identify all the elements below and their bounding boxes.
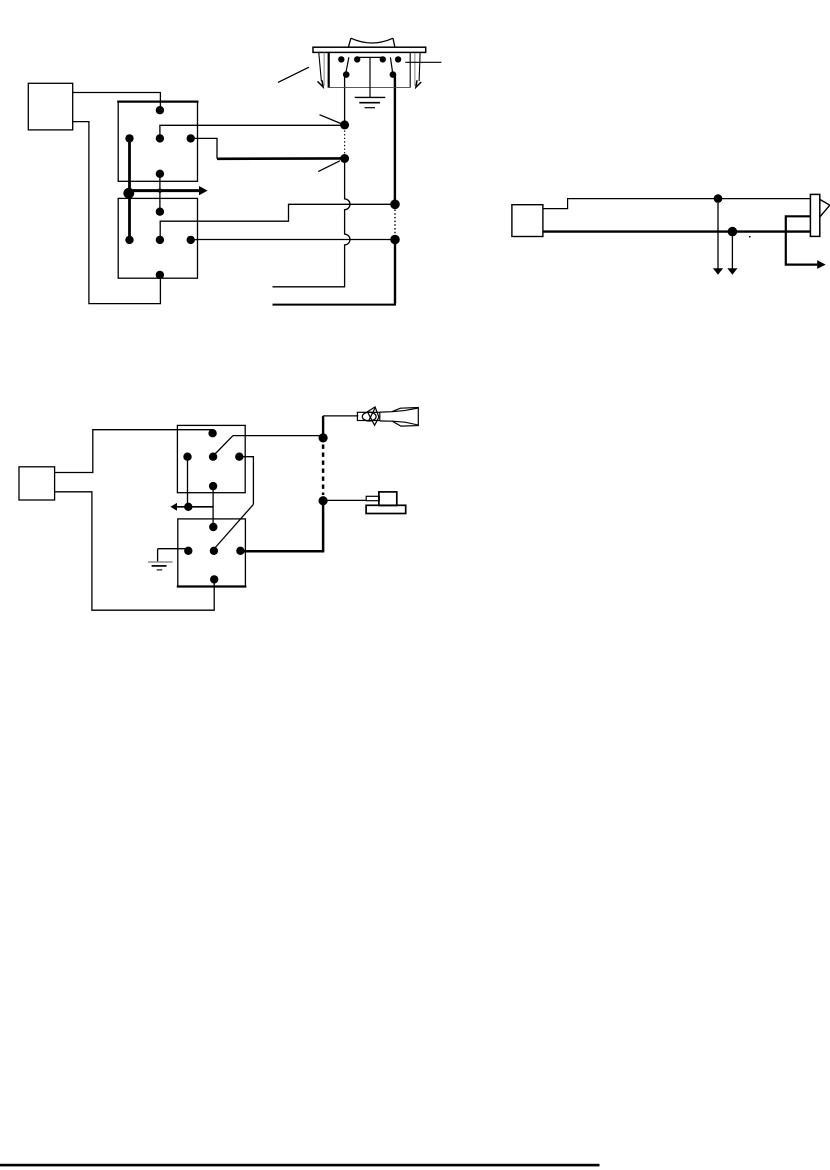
- wire S3 left pin down to arrow node: [187, 457, 189, 507]
- S1 pin center: [156, 134, 164, 142]
- wire rocker left pin down to node A: [344, 75, 346, 126]
- bold wire node H down to S4 right pin: [322, 501, 325, 552]
- dome lamp filament slash: [369, 408, 375, 421]
- S3 pin top: [208, 429, 216, 437]
- wire S3 lever to node G: [233, 435, 320, 437]
- cargo lamp L2 base: [366, 505, 406, 513]
- S4 pin left: [184, 547, 192, 555]
- wire S2 right pin to node D: [191, 239, 391, 241]
- wire to dome lamp: [323, 415, 358, 417]
- dome lamp rotated square: [367, 407, 379, 425]
- S2 pin left: [125, 236, 133, 244]
- wire C1 to switch S2 bottom pin (long loop left and under): [73, 122, 161, 304]
- wire node H to lamp assembly: [323, 499, 366, 501]
- S3 lever diagonal: [215, 436, 234, 455]
- wire S4 left pin to ground: [158, 549, 189, 562]
- node G (junction to dome lamp): [319, 433, 328, 442]
- node F on bold wire: [728, 227, 738, 237]
- S3 pin bottom: [209, 482, 217, 490]
- S1 pin right: [187, 134, 195, 142]
- S4 pin bottom: [210, 575, 218, 583]
- S1 pin bottom: [156, 170, 164, 178]
- node small dot where arrow crosses centre wire: [158, 188, 162, 192]
- S3 pin right: [235, 453, 243, 461]
- S2 pin center: [156, 236, 164, 244]
- bold bus wire S1 left pin to S2 left pin: [128, 138, 131, 240]
- plug P1 (right connector): [810, 194, 819, 236]
- dome lamp sock wing lines: [392, 408, 419, 425]
- wire from plug down with right arrow: [786, 216, 818, 264]
- dome lamp sock shell: [380, 408, 419, 427]
- connector C2 (left box): [19, 467, 55, 500]
- dotted wire node A to node B: [344, 131, 346, 154]
- connector C1 (multi-pin plug, top-left box): [28, 83, 72, 130]
- dashed wire node G to node H: [322, 445, 325, 496]
- bold wire node D down and left: [394, 240, 396, 304]
- S2 pin bottom: [156, 271, 164, 279]
- leader line to node A: [320, 115, 341, 124]
- S1 pin left: [125, 134, 133, 142]
- wire S1 center pin to rocker node A: [160, 125, 341, 138]
- bold wire node G up: [322, 416, 324, 440]
- plug P1 wedge: [820, 199, 830, 217]
- stray speck: [749, 236, 751, 238]
- drop wire with down arrow from node E: [717, 203, 719, 269]
- S2 pin right: [187, 236, 195, 244]
- rocker switch mounting flange: [313, 47, 426, 52]
- connector C3 (left box): [512, 205, 543, 237]
- S1 pin top: [156, 106, 164, 114]
- node A: [340, 120, 349, 129]
- wire rocker right terminal going right: [405, 61, 441, 63]
- S4 bold bottom edge: [177, 585, 247, 587]
- rocker contact levers: [346, 57, 393, 73]
- wire C1 to switch S1 top pin: [73, 93, 161, 108]
- leader line to node B: [318, 161, 340, 172]
- cargo lamp L2 body: [379, 492, 397, 506]
- switch block S4 (lower): [178, 519, 246, 587]
- drop wire with down arrow from node F: [731, 236, 733, 268]
- S4 pin right: [236, 547, 244, 555]
- rocker terminal pins: [338, 56, 344, 62]
- footer horizontal rule: [0, 1164, 600, 1167]
- node E on thin wire: [714, 194, 723, 203]
- wire S3 right pin down to S4 lever: [239, 457, 253, 505]
- wire S3 bottom pin to S4 top pin: [212, 486, 214, 527]
- switch block S1 bold top edge: [117, 100, 198, 102]
- wire C2 lower to switch S4 bottom pin: [55, 492, 215, 610]
- switch block S1 (upper 5-pin switch): [118, 102, 197, 182]
- S2 pin top: [156, 208, 164, 216]
- switch block S3 (upper): [177, 425, 245, 492]
- ground symbol under rocker: [355, 96, 386, 98]
- wire S2 center pin to node C: [160, 204, 390, 240]
- node H: [319, 496, 328, 505]
- switch block S2 (lower 5-pin switch): [118, 198, 197, 278]
- wire S1 right pin jog: [191, 138, 217, 158]
- node B: [340, 154, 349, 163]
- wire node B down with hops over two crossing wires: [273, 159, 351, 287]
- bold wire to rocker node B: [217, 157, 341, 160]
- node big junction dot on bus: [123, 188, 134, 199]
- dome lamp L1 body: [357, 412, 379, 420]
- bold wire rocker right pin down to node C: [394, 75, 396, 205]
- node I on arrow wire: [184, 503, 192, 511]
- dome lamp lens circle: [362, 412, 376, 421]
- S3 pin left: [183, 453, 191, 461]
- bold wire from C3 to plug: [543, 230, 811, 232]
- rocker lower contact pins: [343, 71, 350, 78]
- S4 pin top: [209, 523, 217, 531]
- rocker left retaining clip: [323, 52, 325, 85]
- arrow wire pointing left: [177, 506, 214, 508]
- leader line to rocker body: [278, 67, 309, 82]
- S4 pin center: [210, 547, 218, 555]
- rocker right retaining clip: [414, 53, 416, 86]
- S3 pin center: [209, 453, 217, 461]
- cargo lamp L2 tab: [366, 496, 379, 500]
- S4 lever diagonal: [215, 504, 253, 547]
- wire C2 upper to switch S3 top pin: [55, 430, 213, 473]
- rocker switch SW3 actuator cap: [348, 38, 395, 47]
- node D: [390, 235, 400, 245]
- wire thin from C3 to plug: [543, 199, 811, 209]
- dotted wire node C to node D: [394, 210, 396, 235]
- node C: [390, 200, 400, 210]
- ground symbol G2: [148, 561, 173, 563]
- wire S1 bottom pin to S2 top pin: [159, 174, 161, 212]
- rocker switch body: [328, 52, 330, 87]
- arrow from bus junction pointing right: [129, 189, 199, 192]
- rocker centre tee to ground: [357, 57, 383, 97]
